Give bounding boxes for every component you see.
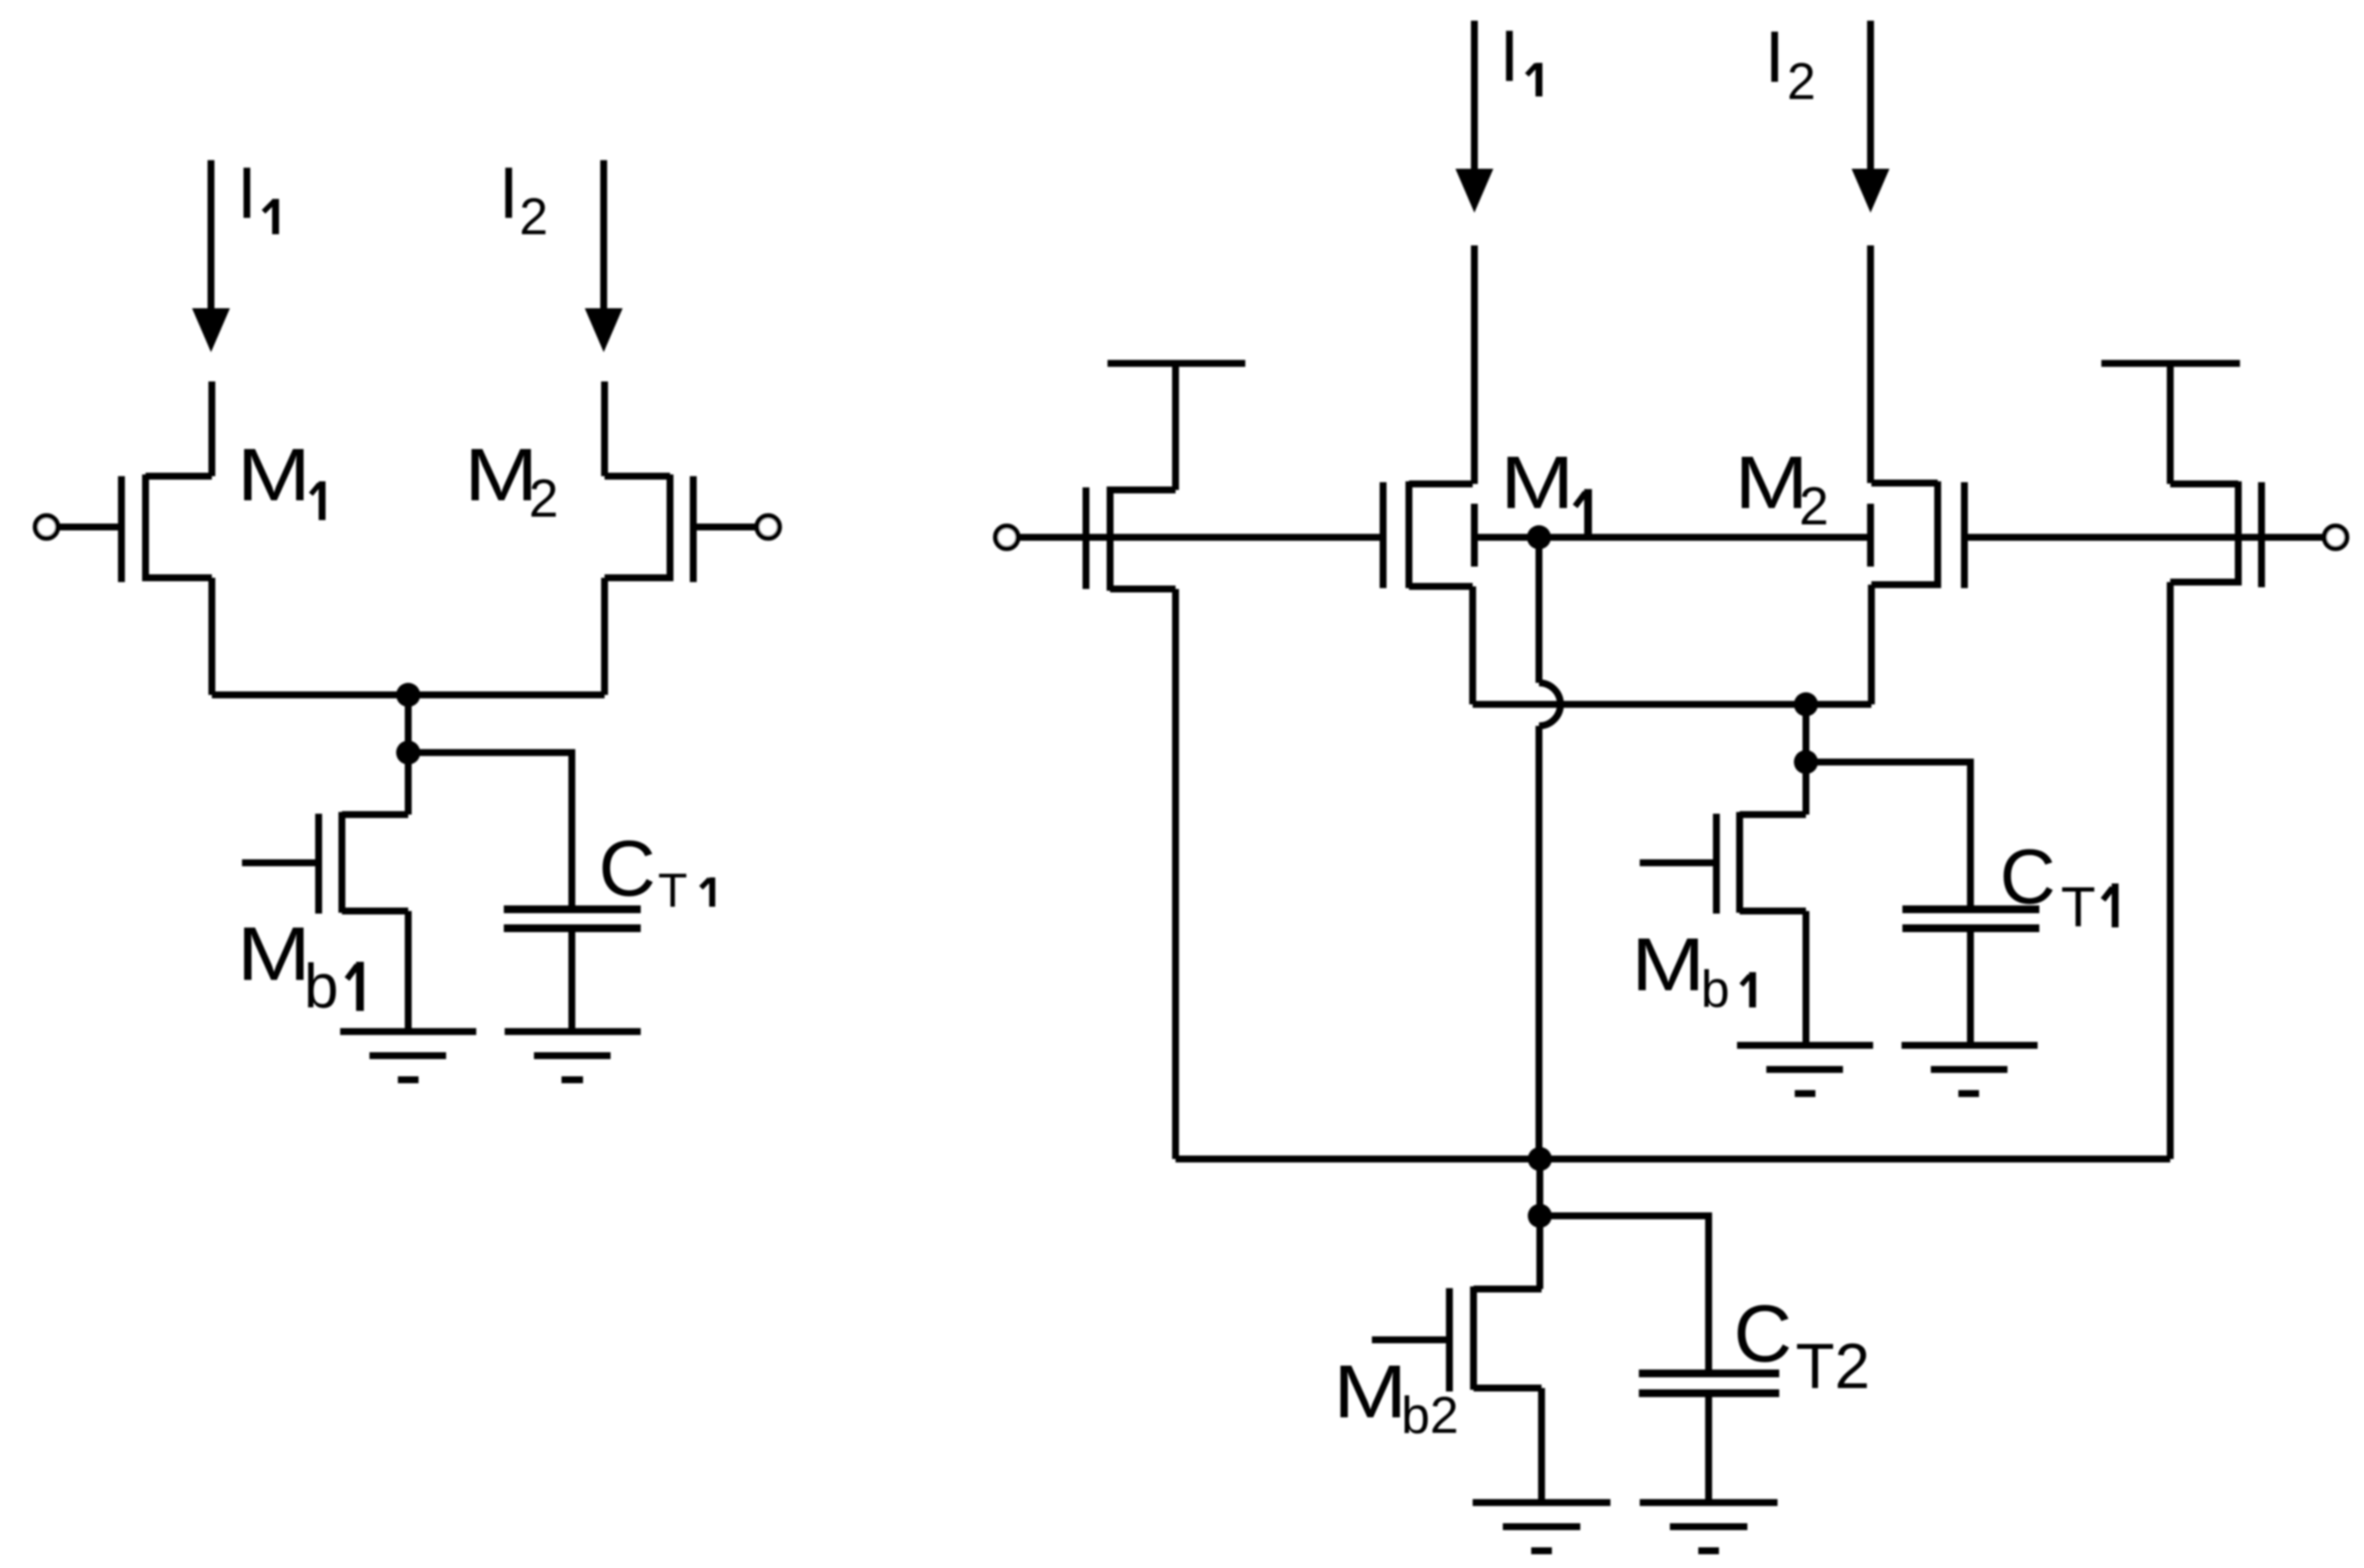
- capacitor CT1 (right): [1902, 909, 2039, 928]
- transistor Mb1 (left): [242, 812, 408, 914]
- node 3 (right): [1528, 1204, 1552, 1228]
- wire source M1 (left): [208, 578, 215, 695]
- current source I1 (right) arrow: [1455, 21, 1493, 213]
- label I2 (left): [499, 152, 548, 245]
- svg-text:C: C: [1734, 1288, 1792, 1379]
- wire CT2 to ground (right): [1705, 1393, 1712, 1503]
- ground under CT2 (right): [1640, 1503, 1778, 1551]
- wire source M1 to tail (right): [1469, 586, 1476, 704]
- svg-text:I: I: [499, 152, 518, 233]
- current source I2 (left) arrow: [585, 160, 623, 352]
- wire node2 to CT1 (right): [1806, 762, 1970, 909]
- svg-text:b2: b2: [1401, 1386, 1459, 1444]
- wire tail node to node2 (right): [1802, 704, 1809, 762]
- svg-text:M: M: [464, 434, 538, 517]
- label I1 (right): [1499, 15, 1539, 96]
- current source I1 (left) arrow: [192, 160, 230, 352]
- label Mb1 (left): [237, 911, 360, 1021]
- wire tail to node2 (left): [405, 695, 412, 753]
- label M1 (left): [237, 434, 322, 520]
- svg-text:2: 2: [1787, 53, 1815, 110]
- wire Mb1 source to ground (left): [405, 911, 412, 1032]
- input terminal left (right circuit): [996, 526, 1018, 548]
- svg-text:M: M: [1500, 442, 1574, 524]
- svg-text:2: 2: [519, 188, 548, 245]
- ground under Mb1 (left): [340, 1032, 476, 1080]
- svg-text:M: M: [1631, 923, 1705, 1007]
- label CT1 (right): [2000, 834, 2115, 939]
- wire bus node to node3 (right): [1536, 1159, 1543, 1216]
- node tail junction (right): [1794, 692, 1818, 716]
- svg-text:2: 2: [1799, 477, 1828, 536]
- svg-text:M: M: [237, 911, 311, 996]
- wire gate line mid segment (right circuit): [1474, 534, 1871, 541]
- label M1 (right): [1500, 442, 1588, 537]
- output terminal right (right circuit): [2324, 526, 2347, 548]
- svg-text:M: M: [1734, 442, 1809, 524]
- svg-text:I: I: [1499, 15, 1519, 96]
- wire node3 down to Mb2 drain (right): [1536, 1216, 1543, 1289]
- label Mb1 (right): [1631, 923, 1753, 1018]
- wire node3 to CT2 (right): [1540, 1216, 1709, 1373]
- svg-text:b: b: [304, 952, 338, 1021]
- svg-text:C: C: [2000, 834, 2056, 920]
- node gate junction under M1 label (right): [1527, 525, 1551, 549]
- node 2 (left): [396, 741, 420, 765]
- transistor M2 (right): [1871, 481, 1964, 588]
- ground under Mb2 (right): [1473, 1503, 1610, 1551]
- ground under CT1 (left): [505, 1032, 641, 1080]
- wire node2 down to Mb1 drain (right): [1802, 762, 1809, 815]
- wire gate line right segment (right circuit): [1964, 534, 2324, 541]
- svg-text:T: T: [2061, 875, 2095, 939]
- wire drain M2 (right): [1867, 245, 1874, 483]
- node tail junction (left): [396, 683, 420, 707]
- node lower bus junction (right): [1528, 1147, 1552, 1171]
- wire tail bus (left): [212, 691, 605, 698]
- svg-text:I: I: [1765, 16, 1784, 97]
- svg-text:M: M: [237, 434, 311, 517]
- wire from gate node down with hop over tail (right): [1539, 537, 1560, 1159]
- transistor M2 (left): [605, 474, 779, 582]
- wire drain M2 (left): [601, 381, 608, 476]
- wire CT1 to ground (left): [568, 928, 575, 1032]
- transistor M1 (left): [35, 474, 212, 582]
- wire lower bus (right): [1176, 1156, 2170, 1162]
- svg-text:I: I: [237, 152, 257, 233]
- wire Mb2 source to ground (right): [1538, 1388, 1545, 1503]
- svg-text:C: C: [599, 825, 655, 913]
- label M2 (left): [464, 434, 558, 529]
- label Mb2 (right): [1333, 1350, 1459, 1444]
- svg-text:T2: T2: [1796, 1330, 1870, 1402]
- wire drain M1 (right): [1471, 245, 1478, 484]
- label I1 (left): [237, 152, 276, 234]
- ground under Mb1 (right): [1737, 1045, 1873, 1094]
- svg-text:T: T: [658, 863, 687, 917]
- wire Mb1 source to ground (right): [1802, 911, 1809, 1045]
- wire tail bus M1-M2 (right): [1473, 701, 1871, 708]
- transistor ML outer-left (right circuit): [1086, 363, 1245, 1159]
- transistor MR outer-right (right circuit): [2101, 363, 2262, 1159]
- label I2 (right): [1765, 16, 1815, 110]
- transistor M1 (right): [1383, 481, 1474, 588]
- wire gate line left segment (right circuit): [1018, 534, 1383, 541]
- wire CT1 to ground (right): [1967, 928, 1974, 1045]
- node 2 (right): [1794, 750, 1818, 774]
- svg-text:2: 2: [529, 469, 558, 529]
- capacitor CT1 (left): [504, 909, 641, 928]
- label M2 (right): [1734, 442, 1828, 536]
- wire source M2 (left): [601, 578, 608, 695]
- wire source M2 to tail (right): [1868, 585, 1875, 704]
- wire node2 to CT1 (left): [408, 753, 572, 909]
- capacitor CT2 (right): [1639, 1373, 1779, 1393]
- wire node2 down to Mb1 drain (left): [405, 753, 412, 815]
- wire drain M1 (left): [208, 381, 215, 476]
- svg-text:b: b: [1701, 960, 1729, 1018]
- ground under CT1 (right): [1902, 1045, 2038, 1094]
- label CT1 (left): [599, 825, 712, 917]
- svg-text:M: M: [1333, 1350, 1407, 1434]
- label CT2 (right): [1734, 1288, 1870, 1402]
- transistor Mb1 (right): [1640, 812, 1806, 914]
- transistor Mb2 (right): [1372, 1286, 1542, 1391]
- current source I2 (right) arrow: [1852, 21, 1889, 213]
